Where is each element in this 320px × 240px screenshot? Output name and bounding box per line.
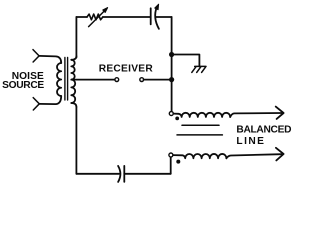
svg-text:RECEIVER: RECEIVER <box>99 64 154 75</box>
wire top rail right segment <box>156 16 171 18</box>
wire receiver right lead <box>144 79 172 81</box>
capacitor C1 arrowhead <box>155 4 159 10</box>
wire bottom rail right segment <box>124 173 170 175</box>
wire top rail middle segment <box>103 16 150 18</box>
wire secondary top bend <box>71 56 76 60</box>
node junction dot upper <box>169 52 174 57</box>
balanced line bar lower <box>177 134 222 136</box>
svg-text:LINE: LINE <box>236 136 265 147</box>
wire ground branch <box>172 55 200 67</box>
bottom line terminal circle <box>169 153 173 157</box>
wire bottom rail left segment <box>76 173 119 175</box>
transformer T1 secondary winding upper <box>71 60 74 80</box>
arrowhead top output <box>276 107 284 119</box>
ground (chassis) <box>192 66 206 72</box>
inductor L1 lead from terminal <box>173 114 181 117</box>
resistor R1 (variable, zigzag) <box>87 14 103 20</box>
wire receiver left lead (secondary tap) <box>72 79 115 81</box>
capacitor C1 curved plate / arrow arc <box>155 7 159 29</box>
inductor L1 winding <box>182 113 231 117</box>
transformer T1 primary winding <box>57 63 61 96</box>
wire top rail left segment <box>76 16 87 18</box>
wire primary top lead <box>39 56 61 63</box>
receiver left terminal <box>115 78 119 82</box>
transformer T1 primary bottom chevron terminal <box>33 98 39 110</box>
wire right vertical <box>171 17 173 111</box>
capacitor C1 (variable) left plate <box>150 8 152 24</box>
svg-text:SOURCE: SOURCE <box>2 80 44 91</box>
wire bottom output line <box>226 154 281 158</box>
capacitor C2 curved plate <box>118 166 120 182</box>
wire left vertical lower <box>75 107 77 174</box>
node junction dot lower <box>169 77 174 82</box>
phasing dot L2 <box>176 160 180 164</box>
phasing dot L1 <box>175 117 179 121</box>
resistor R1 arrow shaft <box>89 12 104 27</box>
wire primary bottom lead <box>39 96 61 104</box>
capacitor C2 right plate <box>123 166 125 182</box>
arrowhead bottom output <box>276 148 284 161</box>
svg-text:BALANCED: BALANCED <box>236 125 291 136</box>
top line terminal circle <box>169 112 173 116</box>
wire bottom riser <box>170 157 172 174</box>
wire top-left vertical (secondary top lead up to top rail) <box>75 17 77 58</box>
balanced line bar upper <box>182 124 219 126</box>
wire secondary bottom bend <box>71 103 76 107</box>
transformer T1 primary top chevron terminal <box>33 50 39 62</box>
resistor R1 arrowhead <box>103 8 108 13</box>
receiver right terminal <box>140 78 144 82</box>
inductor L2 lead from terminal <box>173 155 185 158</box>
inductor L2 winding <box>185 154 226 158</box>
transformer T1 core <box>65 58 68 101</box>
transformer T1 secondary winding lower <box>71 80 75 103</box>
wire top output line <box>230 113 282 117</box>
